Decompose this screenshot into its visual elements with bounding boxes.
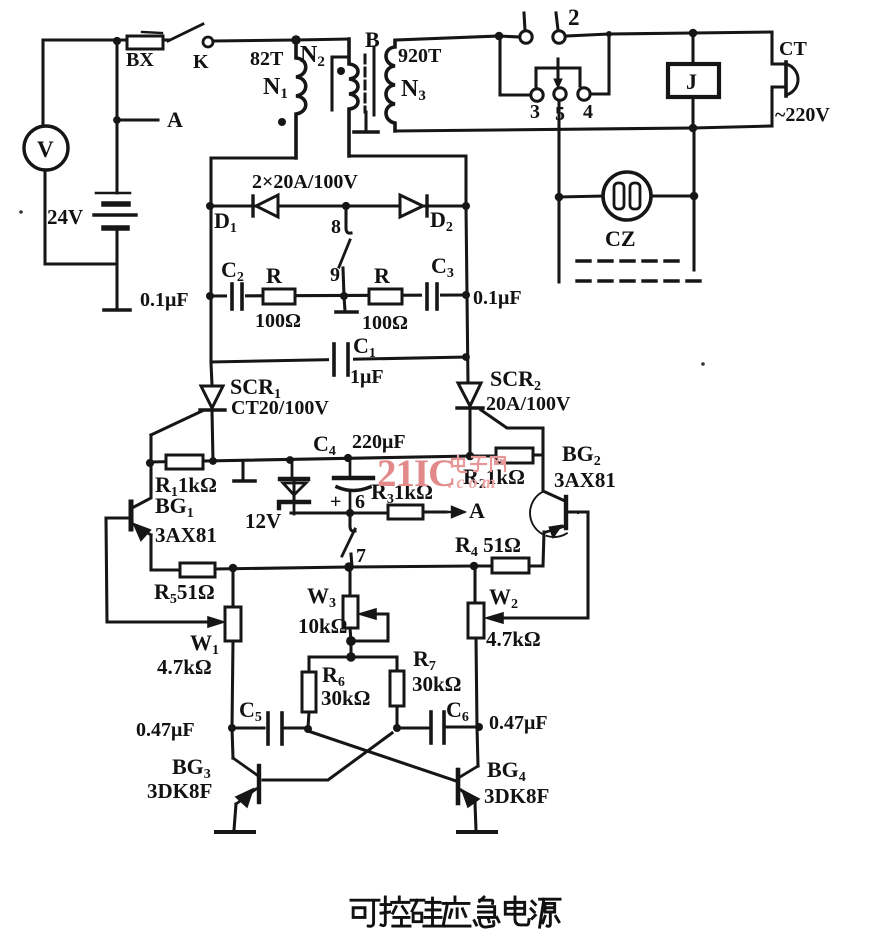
node N1 top junction dot [291, 35, 300, 44]
resistor R7 30k [390, 657, 404, 727]
capacitor C1 [329, 344, 353, 375]
wire cross-coupling C6 node to BG3 base [263, 733, 392, 780]
node contact-1 feed junction [495, 32, 504, 41]
wire RC row [211, 295, 466, 296]
svg-text:30kΩ: 30kΩ [412, 672, 462, 696]
svg-text:0.47μF: 0.47μF [136, 719, 195, 741]
node R1 left junction [146, 459, 154, 467]
wire W3 wiper loop to bottom terminal [351, 614, 388, 641]
transformer core dashed lamination [364, 55, 367, 112]
svg-text:3AX81: 3AX81 [155, 523, 217, 547]
wire contact 5 down to CZ [557, 101, 560, 282]
wire SCR2 cathode down [468, 409, 471, 456]
node C5 left junction [228, 724, 236, 732]
resistor R6 30k [302, 657, 316, 728]
node 7 junction [344, 562, 353, 571]
wire lower rail R5 to R4 [215, 566, 492, 569]
svg-text:2×20A/100V: 2×20A/100V [252, 171, 358, 193]
wire contact 4 to riser [591, 34, 609, 94]
switch K terminal [203, 37, 213, 47]
socket CZ [559, 172, 694, 220]
transistor BG2 [530, 489, 588, 538]
svg-text:6: 6 [355, 491, 365, 513]
stray speck left edge [19, 210, 23, 214]
wire SCR2 gate diagonal [481, 410, 543, 455]
contact 1 lever [524, 13, 525, 30]
node zener top junction [286, 456, 294, 464]
wire N2 upper tap bracket [332, 57, 349, 110]
wire switch K to N1 top [213, 40, 294, 41]
ground bar below node 9 [336, 310, 357, 314]
svg-text:K: K [193, 51, 209, 73]
diode D2 [400, 195, 427, 217]
svg-text:0.1μF: 0.1μF [473, 287, 522, 309]
capacitor C2 [227, 284, 245, 309]
wire diode row [211, 204, 466, 207]
node C5 right junction [304, 725, 312, 733]
svg-text:920T: 920T [398, 45, 442, 67]
wire SCR1 cathode down [212, 411, 213, 461]
ground BG3 [216, 830, 254, 834]
node W3 bottom junction [346, 636, 356, 646]
node R4 left junction [470, 562, 479, 571]
wire R2 right to BG2 collector node [533, 455, 565, 501]
svg-text:B: B [365, 27, 380, 52]
capacitor C3 [422, 284, 440, 309]
ground bar below battery [104, 308, 130, 312]
wire BG1 base left rail down to W1 wiper [106, 518, 206, 622]
svg-text:R551Ω: R551Ω [154, 579, 215, 607]
resistor R4 51ohm [492, 558, 529, 573]
thyristor SCR2 [457, 383, 483, 408]
wire R4 right up to BG2 emitter [529, 532, 544, 566]
svg-text:3: 3 [530, 101, 540, 123]
svg-text:21IC: 21IC [377, 452, 455, 495]
wire contact 2 to relay top corner [566, 32, 772, 36]
potentiometer W2 [468, 566, 484, 727]
svg-text:2: 2 [568, 5, 580, 30]
wire node A tick [120, 118, 158, 121]
node SCR1 cathode junction [209, 457, 217, 465]
ground BG4 [458, 830, 496, 834]
wire CT branch bottom [772, 87, 784, 126]
wire battery negative lead down [115, 228, 118, 308]
svg-text:8: 8 [331, 216, 341, 238]
wire N1 top to N2 top corner [296, 39, 349, 40]
wire stub with bar on node row [241, 461, 244, 479]
wire node 6 row [291, 511, 388, 514]
transistor BG4 [458, 727, 479, 830]
wire node row main rail [150, 456, 496, 462]
svg-text:SCR2: SCR2 [490, 366, 541, 394]
svg-text:220μF: 220μF [352, 431, 406, 453]
svg-text:100Ω: 100Ω [255, 310, 301, 332]
transformer winding N1 [296, 40, 306, 158]
wire R3 right lead [423, 510, 446, 513]
svg-text:20A/100V: 20A/100V [486, 393, 571, 415]
svg-text:~220V: ~220V [775, 104, 830, 126]
resistor R2 1k [496, 448, 533, 463]
switch 8-9 blade [339, 240, 350, 267]
wire feed down to contact 3 [500, 36, 530, 95]
svg-text:CZ: CZ [605, 226, 636, 251]
fuse BX [127, 36, 163, 49]
wire right rail diode row to SCR2 [466, 206, 468, 384]
wire switch 7 to node 7 [351, 554, 352, 567]
wire junction to contact 1 [499, 36, 519, 37]
contact 5 actuator lever [556, 59, 559, 83]
battery 24V plates [94, 193, 136, 228]
svg-text:82T: 82T [250, 48, 284, 70]
resistor R5 51ohm [180, 563, 215, 577]
wire W3 bottom to R6 R7 rail [349, 641, 352, 657]
arrowhead W2 wiper [486, 613, 503, 623]
svg-text:D1: D1 [214, 208, 237, 236]
svg-text:BG1: BG1 [155, 493, 194, 521]
arrow to node A [446, 507, 464, 517]
svg-text:10kΩ: 10kΩ [298, 614, 348, 638]
svg-text:+: + [330, 491, 341, 513]
wire N2 bottom to right rail [349, 156, 466, 206]
resistor R1 1k [166, 455, 203, 469]
wire BG1 collector rail [132, 435, 151, 508]
node R5 right junction [229, 564, 238, 573]
svg-text:N1: N1 [263, 74, 288, 102]
svg-text:0.47μF: 0.47μF [489, 712, 548, 734]
svg-text:C4: C4 [313, 431, 336, 459]
svg-text:3DK8F: 3DK8F [147, 779, 212, 803]
wire CT branch top [772, 32, 784, 64]
wire cross-coupling C5 node to BG4 base [308, 731, 456, 781]
svg-text:BG2: BG2 [562, 441, 601, 469]
wire fuse to switch K [163, 38, 169, 41]
svg-text:1μF: 1μF [350, 366, 384, 388]
wire N3 top to contacts [395, 36, 499, 40]
wire node 9 lead [343, 268, 344, 296]
svg-text:C1: C1 [353, 333, 376, 361]
wire left rail down to voltmeter [41, 40, 44, 126]
resistor R right 100ohm [369, 289, 402, 304]
contact terminal 5 [554, 88, 566, 100]
node RC row right junction [462, 291, 470, 299]
diode D1 [253, 195, 278, 217]
transistor BG3 [232, 728, 259, 830]
thyristor SCR1 [200, 386, 225, 410]
svg-text:J: J [686, 69, 697, 94]
svg-text:C3: C3 [431, 253, 454, 281]
wire N3 bottom rail to relay and CT [395, 126, 772, 131]
potentiometer W1 [225, 568, 241, 728]
wire C1 row [211, 357, 466, 362]
capacitor C5 [232, 713, 306, 744]
svg-text:24V: 24V [47, 205, 83, 229]
ground bar stub node row [234, 479, 255, 483]
node RC row left junction [206, 292, 214, 300]
capacitor C6 [397, 712, 477, 743]
stray speck right mid [701, 362, 705, 366]
node A junction dot [113, 116, 121, 124]
svg-text:30kΩ: 30kΩ [321, 686, 371, 710]
relay coil J [668, 33, 719, 128]
dashed extension sockets row 2 [577, 279, 705, 282]
svg-text:C6: C6 [446, 697, 469, 725]
voltmeter V [24, 126, 68, 170]
capacitor C4 220uF electrolytic [334, 457, 373, 514]
node C6 right junction [475, 723, 483, 731]
svg-text:BG3: BG3 [172, 754, 211, 782]
svg-text:C5: C5 [239, 697, 262, 725]
svg-text:100Ω: 100Ω [362, 312, 408, 334]
svg-text:9: 9 [330, 264, 340, 286]
svg-text:N2: N2 [300, 42, 325, 70]
svg-text:12V: 12V [245, 509, 281, 533]
wire relay bottom to CZ right [692, 128, 695, 270]
node C6 left junction [393, 724, 401, 732]
phase dot of N1 [278, 118, 286, 126]
wire left rail diode row to SCR1 [211, 206, 212, 385]
caption char ke [351, 900, 379, 926]
svg-text:3DK8F: 3DK8F [484, 784, 549, 808]
node R6 R7 rail junction [346, 652, 355, 661]
svg-text:BG4: BG4 [487, 757, 526, 785]
wire stub below node 9 [344, 296, 345, 311]
caption char kong [381, 897, 410, 926]
svg-text:V: V [37, 137, 54, 162]
zener diode 12V [279, 460, 309, 514]
svg-text:N3: N3 [401, 76, 426, 104]
arrowhead W3 wiper [359, 609, 376, 619]
potentiometer W3 [343, 568, 358, 641]
switch K blade [168, 24, 203, 41]
svg-text:4.7kΩ: 4.7kΩ [486, 627, 541, 651]
resistor R left 100ohm [263, 289, 295, 304]
contact terminal 3 [531, 89, 543, 101]
contact 2 lever [556, 13, 558, 30]
watermark dianziwang red [452, 456, 505, 472]
core ground stub [364, 112, 367, 131]
svg-text:W3: W3 [307, 583, 336, 611]
contact terminal 1 [520, 31, 532, 43]
svg-text:R4 51Ω: R4 51Ω [455, 532, 521, 560]
wire R6 R7 top rail [309, 655, 397, 658]
contact terminal 2 [553, 31, 565, 43]
node relay bottom junction [689, 124, 698, 133]
transformer core solid bar [373, 47, 376, 115]
svg-text:W2: W2 [489, 584, 518, 612]
svg-text:CT: CT [779, 38, 807, 60]
caption char yuan [531, 899, 560, 927]
node SCR2 cathode junction [466, 452, 475, 461]
node CZ left junction [555, 193, 564, 202]
wire top-left rail from left rail to fuse BX [43, 38, 127, 41]
svg-text:CT20/100V: CT20/100V [231, 397, 329, 419]
resistor R3 1k [388, 505, 423, 519]
svg-text:BX: BX [126, 49, 154, 71]
actuator crossbar linkage [536, 68, 580, 86]
caption char gui [411, 898, 441, 926]
svg-text:R: R [374, 263, 391, 288]
svg-text:D2: D2 [430, 207, 453, 235]
wire battery column down [115, 41, 118, 193]
node CZ right junction [690, 192, 699, 201]
node diode row center junction [342, 202, 350, 210]
svg-text:R: R [266, 263, 283, 288]
transformer winding N2 [349, 39, 358, 156]
dashed extension sockets row 1 [577, 259, 682, 262]
switch 7 blade [342, 529, 355, 556]
svg-text:A: A [167, 107, 183, 132]
svg-text:A: A [469, 498, 485, 523]
svg-text:R7: R7 [413, 646, 436, 674]
caption char dian [505, 897, 529, 925]
node junction at battery column top [113, 37, 121, 45]
node relay top junction [689, 29, 698, 38]
wire BG2 base down to W2 wiper [505, 512, 588, 618]
node C4 top junction [344, 454, 352, 462]
svg-text:C2: C2 [221, 257, 244, 285]
svg-text:W1: W1 [190, 630, 219, 658]
phase dot of N2 [337, 67, 345, 75]
wire voltmeter to bottom-left corner [45, 170, 117, 264]
caption char ji [474, 897, 499, 927]
wire N1 bottom to left rail [211, 158, 296, 206]
switch 7 upper lead with hook [346, 509, 354, 517]
transformer winding N3 [386, 41, 395, 131]
actuator arrowhead [554, 79, 562, 88]
core ground bar [354, 130, 378, 134]
caption char ying [443, 897, 470, 926]
node RC row center junction [340, 292, 348, 300]
svg-text:7: 7 [356, 545, 366, 567]
transistor BG1 [106, 502, 180, 570]
node contact 4 riser junction [606, 31, 612, 37]
svg-text:3AX81: 3AX81 [554, 468, 616, 492]
svg-text:.com: .com [448, 472, 500, 492]
node diode row right junction [462, 202, 470, 210]
plug CT symbol [786, 62, 798, 96]
node diode row left junction [206, 202, 214, 210]
arrowhead W1 wiper [208, 617, 224, 627]
wire SCR1 gate diagonal [151, 411, 202, 435]
contact terminal 4 [578, 88, 590, 100]
svg-text:0.1μF: 0.1μF [140, 289, 189, 311]
wire node 8 lead with hook [346, 206, 351, 233]
svg-text:5: 5 [555, 103, 565, 125]
svg-text:4.7kΩ: 4.7kΩ [157, 655, 212, 679]
svg-text:4: 4 [583, 101, 593, 123]
